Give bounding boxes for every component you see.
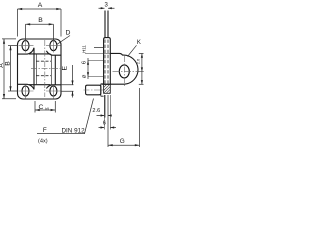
svg-text:2.6: 2.6: [92, 108, 100, 114]
svg-text:B: B: [38, 17, 43, 24]
svg-text:E: E: [62, 65, 69, 70]
svg-text:6: 6: [82, 61, 88, 64]
svg-text:DIN 912: DIN 912: [62, 127, 86, 134]
svg-text:H11: H11: [81, 45, 86, 53]
svg-text:A: A: [38, 2, 43, 9]
svg-text:D: D: [66, 29, 71, 36]
svg-text:G: G: [120, 138, 125, 145]
svg-text:2.6: 2.6: [136, 58, 141, 64]
svg-text:(4x): (4x): [38, 139, 48, 145]
svg-text:6: 6: [103, 120, 106, 126]
svg-text:F: F: [43, 127, 47, 134]
svg-text:B: B: [4, 61, 11, 66]
svg-text:K: K: [137, 40, 141, 46]
svg-text:⌀: ⌀: [82, 74, 88, 78]
svg-text:3: 3: [105, 2, 109, 8]
svg-text:h9: h9: [45, 107, 49, 111]
svg-text:C: C: [39, 104, 44, 111]
